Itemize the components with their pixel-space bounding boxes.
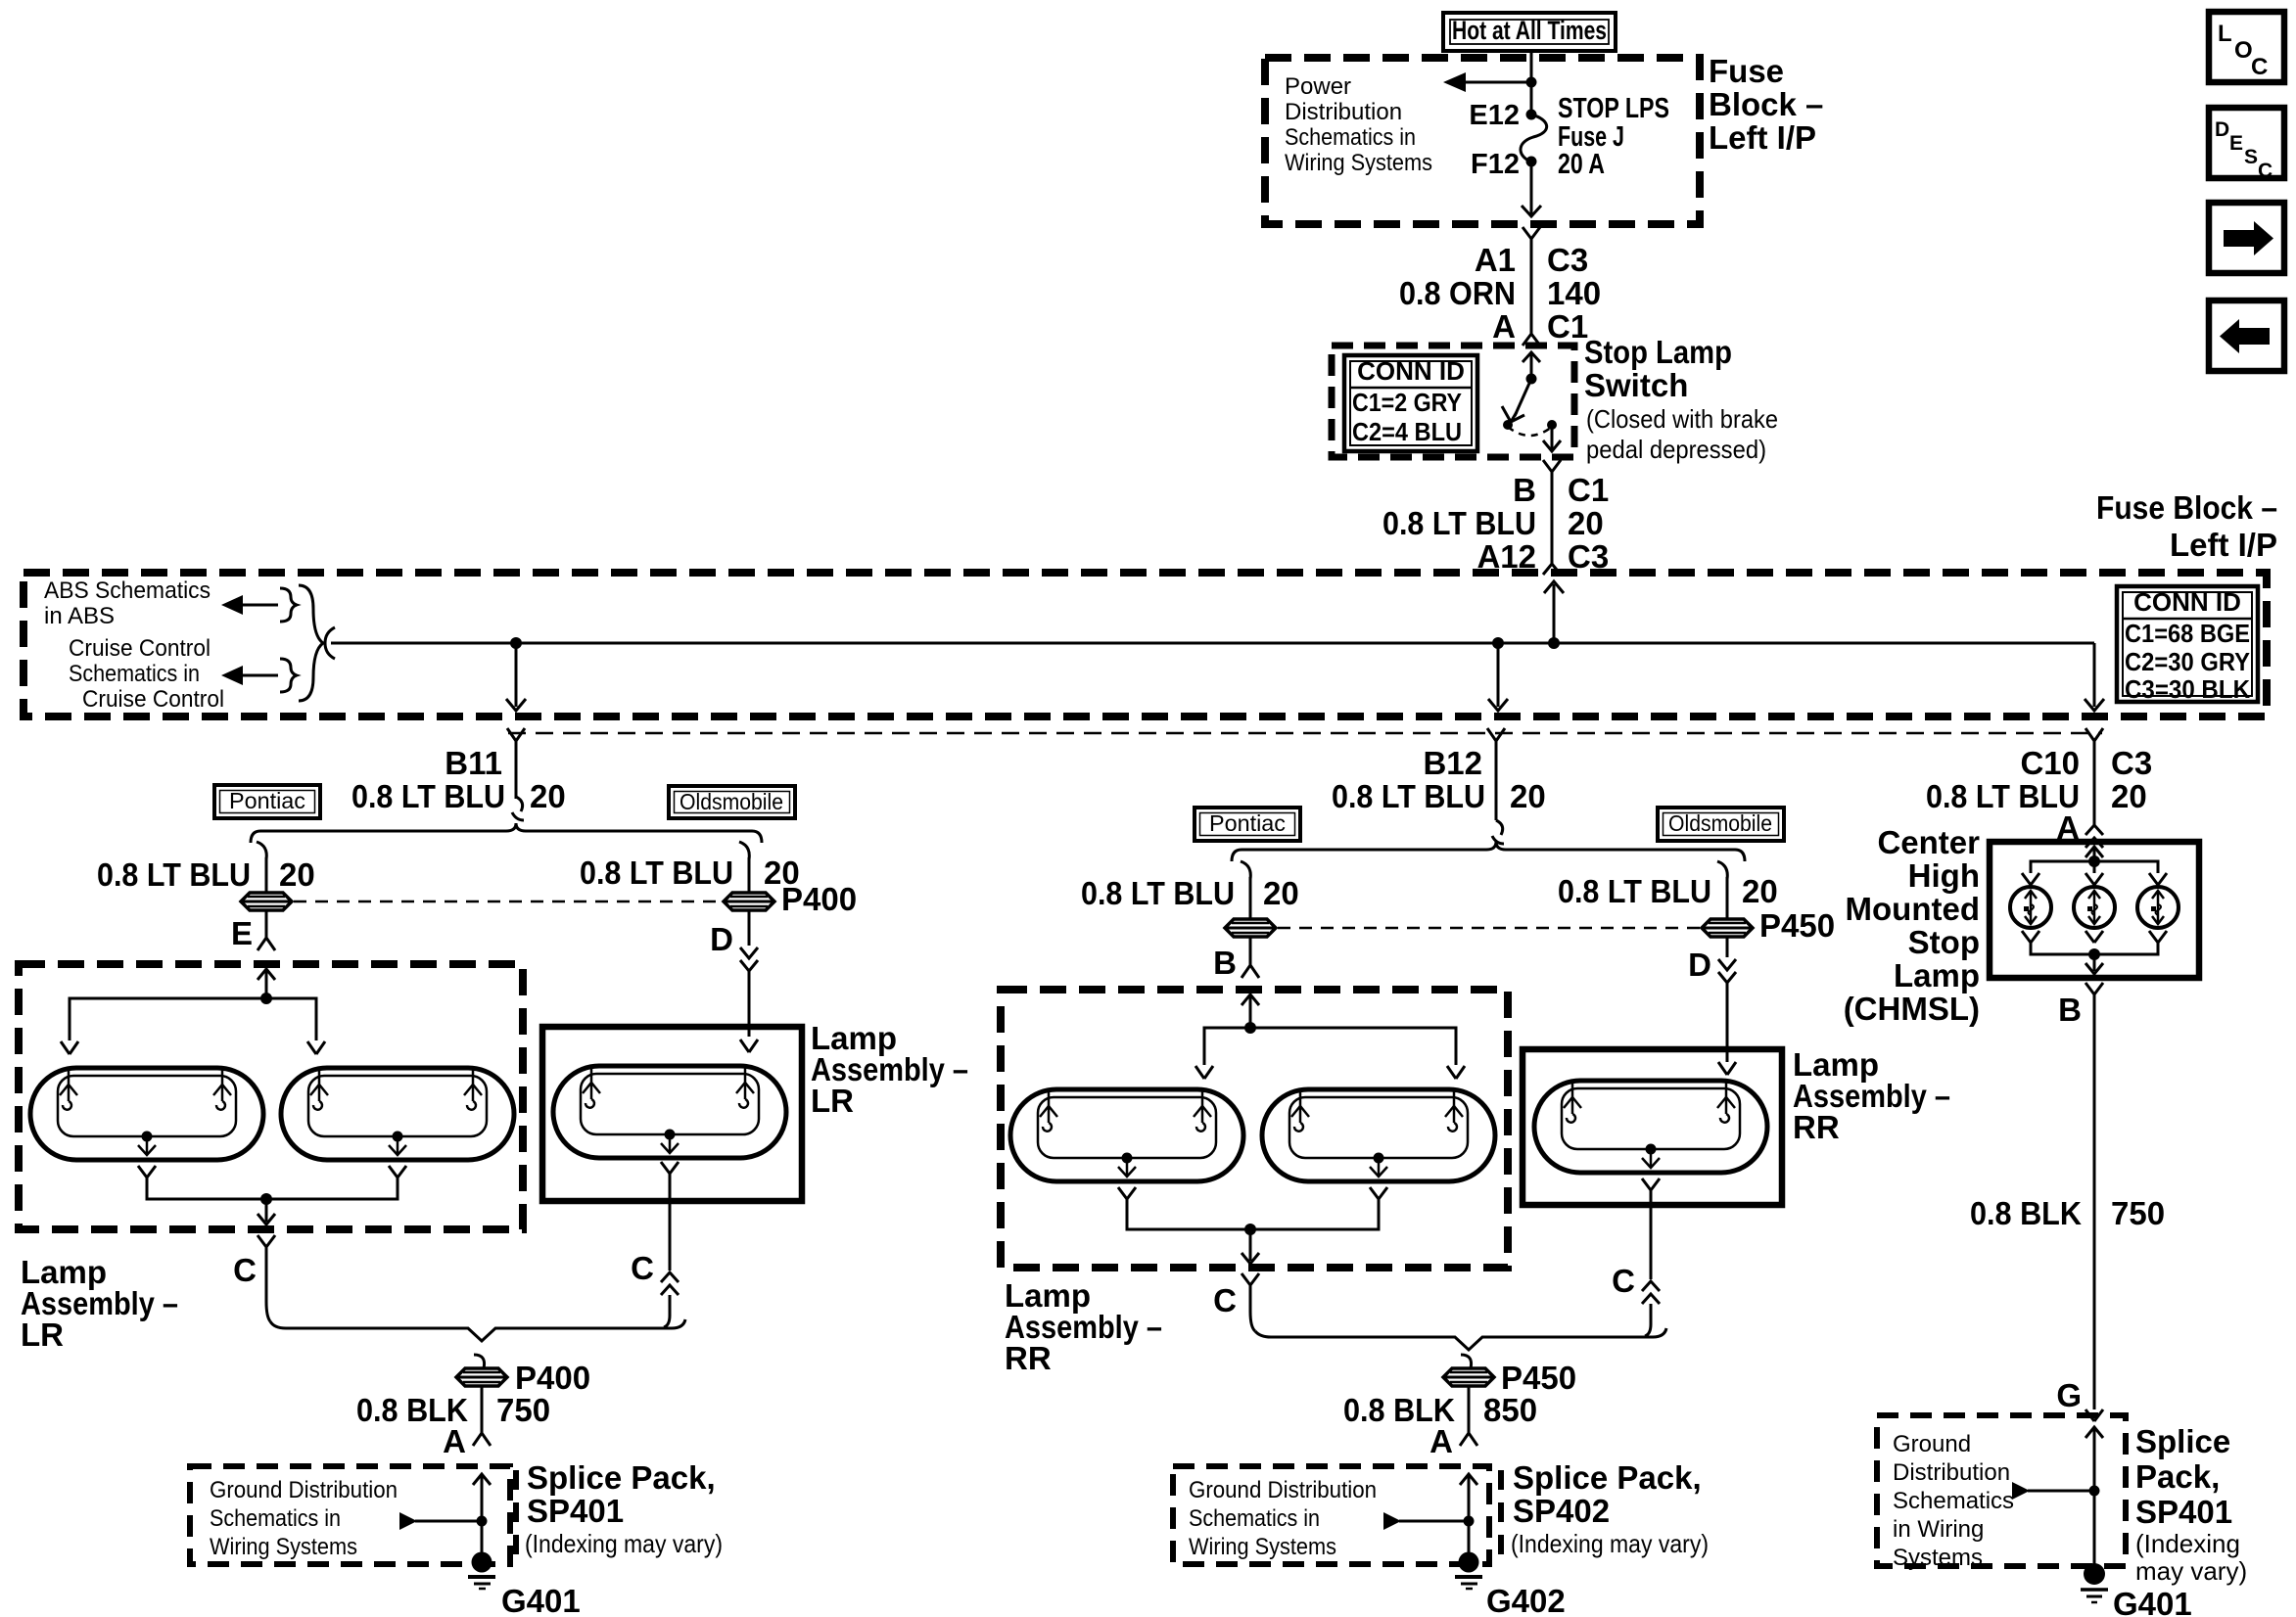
wire Oldsmobile RR branch bbox=[1726, 877, 1729, 918]
svg-text:ABS Schematics: ABS Schematics bbox=[44, 577, 211, 604]
fork to LR bulb 2 bbox=[307, 1041, 325, 1054]
svg-text:C2=30 GRY: C2=30 GRY bbox=[2125, 647, 2250, 676]
svg-text:RR: RR bbox=[1005, 1340, 1052, 1376]
svg-text:20: 20 bbox=[530, 778, 566, 814]
hook above P450 ground splice bbox=[1461, 1355, 1472, 1368]
splice P450 (ground) bbox=[1443, 1368, 1494, 1386]
feed line across LR assembly bbox=[70, 998, 316, 1040]
svg-text:in Wiring: in Wiring bbox=[1893, 1516, 1984, 1543]
svg-text:E12: E12 bbox=[1469, 100, 1520, 131]
fork to CHMSL bulb 1 bbox=[2022, 873, 2039, 885]
svg-text:20: 20 bbox=[1742, 873, 1778, 909]
svg-text:20 A: 20 A bbox=[1558, 149, 1605, 180]
connector A12/C3 fork bbox=[1543, 564, 1561, 575]
fuse block dashed box (Fuse Block - Left I/P) bbox=[1265, 58, 1700, 224]
bus corner to C10 with arrow bbox=[2085, 643, 2104, 711]
dashed in-line connector line P400 bbox=[294, 901, 722, 903]
connector A double chevron (CHMSL) bbox=[2085, 825, 2103, 848]
switch output wire with arrow bbox=[1543, 425, 1561, 451]
wire label 0.8 LT BLU | 20 bbox=[1382, 505, 1604, 541]
connector B12 fork bbox=[1487, 728, 1505, 741]
dashed travel arc bbox=[1508, 427, 1552, 436]
fork below CHMSL bulb 2 bbox=[2085, 931, 2103, 943]
wire label 0.8 BLK | 750 (CHMSL) bbox=[1970, 1195, 2165, 1231]
icon box left arrow bbox=[2209, 300, 2284, 371]
icon box LOC bbox=[2209, 12, 2284, 82]
wire C hook (Oldsmobile LR) bbox=[664, 1295, 670, 1327]
svg-text:SP401: SP401 bbox=[527, 1493, 624, 1529]
svg-text:B11: B11 bbox=[445, 745, 502, 781]
svg-text:Wiring Systems: Wiring Systems bbox=[1189, 1534, 1336, 1560]
wire B11 bbox=[515, 741, 518, 799]
fork below CHMSL bulb 3 bbox=[2149, 931, 2167, 943]
lamp assembly RR dashed box bbox=[1001, 990, 1508, 1268]
svg-text:C10: C10 bbox=[2020, 745, 2080, 781]
hook under B12 bbox=[1492, 820, 1504, 844]
pin labels A | C1 bbox=[1492, 308, 1588, 345]
bulb LR solid (dual filament) bbox=[553, 1066, 786, 1158]
label: Fuse Block - Left I/P (top) bbox=[1709, 53, 1823, 156]
svg-text:G401: G401 bbox=[501, 1583, 581, 1617]
connector B/C1 fork bbox=[1543, 460, 1561, 472]
junction A12 feed bbox=[1548, 637, 1560, 649]
wire label 0.8 BLK | 750 bbox=[356, 1392, 550, 1428]
wire below splice (Oldsmobile RR) bbox=[1726, 937, 1729, 957]
svg-text:SP401: SP401 bbox=[2135, 1494, 2232, 1530]
svg-text:Schematics in: Schematics in bbox=[1189, 1505, 1320, 1532]
reference text: Power Distribution Schematics in Wiring Systems bbox=[1285, 73, 1432, 176]
svg-text:Lamp: Lamp bbox=[1894, 957, 1980, 993]
splice P450 (Oldsmobile side) bbox=[1702, 919, 1753, 937]
svg-text:RR: RR bbox=[1793, 1109, 1840, 1145]
switch left contact bbox=[1503, 420, 1513, 430]
svg-text:0.8 LT BLU: 0.8 LT BLU bbox=[1332, 778, 1485, 814]
svg-text:P400: P400 bbox=[781, 881, 857, 917]
svg-text:SP402: SP402 bbox=[1513, 1493, 1610, 1529]
svg-text:(CHMSL): (CHMSL) bbox=[1844, 991, 1980, 1027]
svg-text:S: S bbox=[2244, 146, 2258, 168]
svg-text:20: 20 bbox=[1510, 778, 1546, 814]
join line to splice P400 with cusp bbox=[270, 1319, 685, 1341]
junction B12 tap bbox=[1492, 637, 1504, 649]
CHMSL bulb 2 bbox=[2074, 887, 2115, 928]
svg-text:Oldsmobile: Oldsmobile bbox=[1668, 810, 1772, 836]
fork to RR bulb 1 bbox=[1195, 1066, 1213, 1079]
svg-text:STOP LPS: STOP LPS bbox=[1558, 93, 1669, 124]
arrow to Cruise Control schematics bbox=[221, 666, 278, 685]
fork into RR solid lamp bbox=[1718, 1062, 1736, 1075]
junction CHMSL bottom bbox=[2088, 948, 2100, 960]
svg-text:C3: C3 bbox=[1547, 242, 1588, 278]
wire from fuse down with arrow bbox=[1522, 162, 1541, 216]
reference text: Cruise Control Schematics in Cruise Control bbox=[69, 635, 224, 713]
connector G fork bbox=[2085, 1409, 2103, 1421]
svg-text:(Indexing may vary): (Indexing may vary) bbox=[1511, 1529, 1709, 1558]
svg-text:C: C bbox=[631, 1250, 654, 1286]
connector B fork (CHMSL) bbox=[2085, 983, 2103, 994]
svg-text:Center: Center bbox=[1877, 824, 1980, 860]
big brace joining both bbox=[299, 585, 323, 701]
arrow out of LR assembly bbox=[258, 1199, 275, 1224]
svg-text:0.8 LT BLU: 0.8 LT BLU bbox=[97, 856, 251, 893]
label: Lamp Assembly - LR (dashed box) bbox=[21, 1254, 178, 1353]
lamp assembly RR solid box (Oldsmobile) bbox=[1523, 1049, 1782, 1205]
CHMSL bottom bus bbox=[2031, 943, 2158, 954]
fork below LR bulb 2 bbox=[389, 1166, 406, 1178]
label box: Hot at All Times bbox=[1443, 13, 1616, 51]
main bus wire inside fuse block bbox=[331, 642, 2094, 645]
svg-text:Pack,: Pack, bbox=[2135, 1458, 2220, 1495]
thin dashed connector plane line bbox=[508, 732, 2102, 735]
label: Lamp Assembly - RR (dashed box) bbox=[1005, 1277, 1162, 1376]
small hook before bus bbox=[325, 627, 335, 659]
junction B11 tap bbox=[510, 637, 522, 649]
fuse block dashed box (wide) bbox=[23, 573, 2267, 716]
label: Center High Mounted Stop Lamp (CHMSL) bbox=[1844, 824, 1980, 1027]
note: (Closed with brake pedal depressed) bbox=[1586, 404, 1778, 464]
fork below CHMSL bulb 1 bbox=[2022, 931, 2039, 943]
connector D double chevron bbox=[740, 947, 758, 971]
svg-text:Left I/P: Left I/P bbox=[2170, 527, 2277, 563]
svg-text:(Indexing may vary): (Indexing may vary) bbox=[525, 1529, 723, 1558]
svg-text:Systems: Systems bbox=[1893, 1545, 1983, 1571]
svg-text:C1=68 BGE: C1=68 BGE bbox=[2125, 619, 2250, 648]
svg-text:High: High bbox=[1908, 857, 1980, 894]
svg-text:Ground Distribution: Ground Distribution bbox=[210, 1477, 398, 1503]
wire C10 bbox=[2093, 741, 2096, 825]
connector C double chevron (Oldsmobile LR) bbox=[661, 1272, 679, 1295]
svg-text:LR: LR bbox=[21, 1317, 64, 1353]
svg-text:0.8 BLK: 0.8 BLK bbox=[1970, 1195, 2082, 1231]
arrow to power distribution bbox=[1443, 72, 1531, 92]
svg-text:A: A bbox=[1429, 1423, 1453, 1459]
arrow out of RR assembly bbox=[1242, 1229, 1259, 1264]
svg-text:140: 140 bbox=[1547, 275, 1601, 311]
splice pack dashed border (SP402) bbox=[1498, 1470, 1504, 1558]
label: Fuse Block - Left I/P (right) bbox=[2096, 489, 2277, 563]
svg-text:Power: Power bbox=[1285, 73, 1351, 100]
connector C10 fork bbox=[2085, 728, 2103, 741]
svg-text:Wiring Systems: Wiring Systems bbox=[1285, 150, 1432, 176]
svg-text:Distribution: Distribution bbox=[1285, 99, 1402, 125]
junction at fuse feed bbox=[1526, 77, 1537, 88]
wire D into LR solid lamp bbox=[748, 971, 751, 1037]
svg-text:P400: P400 bbox=[515, 1360, 590, 1396]
svg-text:C: C bbox=[2258, 160, 2273, 182]
svg-text:B: B bbox=[2058, 992, 2082, 1028]
label: Splice Pack SP401 bbox=[525, 1459, 723, 1558]
wire 0.8 BLK 750 bbox=[481, 1386, 484, 1433]
wire label 0.8 BLK | 850 bbox=[1343, 1392, 1537, 1428]
ground G402 bbox=[1455, 1552, 1482, 1590]
arrow up inside ground box (left) bbox=[473, 1474, 491, 1562]
wire out of LR solid box bbox=[669, 1174, 672, 1270]
bulb RR 2 (dual filament) bbox=[1262, 1089, 1495, 1181]
svg-text:LR: LR bbox=[811, 1083, 854, 1119]
svg-text:0.8 ORN: 0.8 ORN bbox=[1399, 275, 1516, 311]
arrow out of CHMSL bbox=[2085, 954, 2103, 974]
wire C hook (Oldsmobile RR) bbox=[1645, 1304, 1651, 1336]
svg-text:0.8 LT BLU: 0.8 LT BLU bbox=[580, 855, 733, 891]
svg-text:G401: G401 bbox=[2113, 1586, 2192, 1617]
bulb LR 1 (dual filament) bbox=[30, 1068, 263, 1160]
fork below LR bulb 1 bbox=[138, 1166, 156, 1178]
arrow into CHMSL top bus bbox=[2085, 847, 2103, 861]
svg-text:(Closed with brake: (Closed with brake bbox=[1586, 404, 1778, 434]
fork below RR bulb 1 bbox=[1118, 1187, 1136, 1199]
arrow into RR assembly bbox=[1242, 994, 1259, 1028]
ground distribution dashed box (left) bbox=[190, 1466, 510, 1564]
svg-text:Left I/P: Left I/P bbox=[1709, 119, 1816, 156]
svg-text:Distribution: Distribution bbox=[1893, 1459, 2010, 1486]
split brace to Pontiac and Oldsmobile (RR) bbox=[1232, 842, 1745, 861]
svg-text:C2=4 BLU: C2=4 BLU bbox=[1352, 417, 1462, 446]
svg-text:0.8 LT BLU: 0.8 LT BLU bbox=[1081, 875, 1235, 911]
svg-text:may vary): may vary) bbox=[2135, 1556, 2247, 1586]
wire 0.8 BLK 750 (CHMSL ground) bbox=[2093, 994, 2096, 1409]
junction on LR ground bus bbox=[260, 1193, 272, 1205]
connector B fork (Pontiac RR) bbox=[1242, 965, 1259, 978]
connector C fork (Pontiac LR) bbox=[258, 1235, 275, 1247]
svg-text:Schematics in: Schematics in bbox=[210, 1505, 341, 1532]
wire label 0.8 LT BLU | 20 (CHMSL) bbox=[1926, 778, 2147, 814]
CONN ID box (fuse block) bbox=[2117, 586, 2258, 704]
svg-text:D: D bbox=[2215, 118, 2229, 141]
fork below LR solid bulb bbox=[661, 1162, 679, 1174]
hook above P400 ground splice bbox=[474, 1355, 485, 1368]
stop lamp switch dashed box bbox=[1332, 346, 1574, 457]
wire below splice (Pontiac) bbox=[265, 910, 268, 938]
svg-text:Fuse Block –: Fuse Block – bbox=[2096, 489, 2277, 526]
svg-text:750: 750 bbox=[2111, 1195, 2165, 1231]
label box: Pontiac bbox=[214, 785, 320, 818]
label: Stop Lamp Switch bbox=[1584, 334, 1732, 403]
switch input arrow up bbox=[1523, 352, 1540, 379]
reference text: Ground Distribution Schematics in Wiring Systems (left) bbox=[210, 1477, 398, 1560]
junction CHMSL top bbox=[2088, 855, 2100, 867]
svg-text:C1: C1 bbox=[1568, 472, 1609, 508]
fork to LR bulb 1 bbox=[61, 1041, 78, 1054]
bulb LR 2 (dual filament) bbox=[281, 1068, 514, 1160]
fork into LR solid lamp bbox=[740, 1039, 758, 1052]
wire into CHMSL bbox=[2093, 838, 2096, 844]
splice P400 (ground) bbox=[456, 1368, 507, 1386]
connector B11 fork bbox=[507, 728, 525, 741]
pin labels A12 | C3 bbox=[1476, 538, 1609, 575]
svg-text:Mounted: Mounted bbox=[1846, 891, 1980, 927]
svg-text:Pontiac: Pontiac bbox=[229, 788, 305, 813]
svg-text:20: 20 bbox=[1568, 505, 1604, 541]
svg-text:20: 20 bbox=[1263, 875, 1299, 911]
fork to CHMSL bulb 3 bbox=[2149, 873, 2167, 885]
connector A/C1 fork bbox=[1523, 334, 1540, 346]
wire A1 to A (0.8 ORN 140) bbox=[1530, 239, 1533, 334]
label box: Pontiac (RR) bbox=[1195, 808, 1300, 841]
hook under B11 bbox=[512, 797, 524, 820]
svg-text:Hot at All Times: Hot at All Times bbox=[1452, 16, 1607, 45]
connector A fork (SP402) bbox=[1460, 1433, 1477, 1446]
svg-text:C: C bbox=[1612, 1263, 1635, 1299]
svg-text:0.8 LT BLU: 0.8 LT BLU bbox=[351, 778, 505, 814]
CHMSL solid box bbox=[1990, 842, 2199, 978]
svg-text:C1: C1 bbox=[1547, 308, 1588, 345]
CONN ID box (switch) bbox=[1344, 355, 1477, 451]
wire B12 tap down with arrow bbox=[1488, 643, 1508, 711]
wire out of RR solid box bbox=[1650, 1190, 1653, 1279]
lamp assembly LR dashed box bbox=[19, 964, 523, 1229]
small brace (Cruise) bbox=[280, 659, 297, 692]
wire Pontiac branch bbox=[265, 857, 268, 893]
svg-text:Cruise Control: Cruise Control bbox=[82, 686, 224, 713]
svg-text:B12: B12 bbox=[1423, 745, 1482, 781]
wire label 0.8 ORN | 140 bbox=[1399, 275, 1601, 311]
svg-text:C1=2 GRY: C1=2 GRY bbox=[1352, 388, 1462, 417]
connector D double chevron (RR) bbox=[1718, 959, 1736, 983]
svg-text:CONN ID: CONN ID bbox=[1357, 356, 1465, 386]
svg-text:Cruise Control: Cruise Control bbox=[69, 635, 211, 662]
wire B11 tap down with arrow bbox=[506, 643, 526, 711]
svg-text:B: B bbox=[1513, 472, 1536, 508]
wire C down to join (Pontiac LR) bbox=[266, 1247, 270, 1321]
svg-text:Schematics in: Schematics in bbox=[69, 661, 200, 687]
pin labels C10 | C3 bbox=[2020, 745, 2152, 781]
svg-text:Schematics: Schematics bbox=[1893, 1488, 2014, 1514]
svg-text:C3: C3 bbox=[2111, 745, 2152, 781]
svg-text:Oldsmobile: Oldsmobile bbox=[679, 789, 783, 814]
label: Lamp Assembly - RR (solid box) bbox=[1793, 1046, 1950, 1145]
value label: STOP LPS Fuse J 20 A bbox=[1558, 93, 1669, 180]
svg-text:C: C bbox=[2251, 54, 2268, 80]
svg-text:20: 20 bbox=[279, 856, 315, 893]
splice P450 (stop lamp feed) bbox=[1225, 919, 1276, 937]
wire below splice (Pontiac RR) bbox=[1249, 937, 1252, 965]
svg-text:Block –: Block – bbox=[1709, 86, 1823, 122]
ground bus inside RR assembly bbox=[1127, 1199, 1379, 1229]
svg-text:Ground Distribution: Ground Distribution bbox=[1189, 1477, 1377, 1503]
wire from Hot at All Times box to fuse block bbox=[1530, 49, 1533, 58]
switch right contact bbox=[1547, 420, 1557, 430]
reference text: Ground Distribution Schematics in Wiring Systems (right) bbox=[1893, 1431, 2014, 1571]
reference text: ABS Schematics in ABS bbox=[44, 577, 211, 629]
wire: feed from fuse bus bbox=[1530, 58, 1533, 115]
arrow to ABS schematics bbox=[221, 595, 278, 615]
svg-text:Splice Pack,: Splice Pack, bbox=[527, 1459, 716, 1496]
CHMSL bulb 3 bbox=[2137, 887, 2179, 928]
svg-text:pedal depressed): pedal depressed) bbox=[1586, 435, 1766, 464]
label box: Oldsmobile (RR) bbox=[1658, 808, 1784, 841]
connector A1/C3 fork bbox=[1523, 227, 1540, 239]
svg-text:Pontiac: Pontiac bbox=[1209, 810, 1286, 836]
svg-text:G402: G402 bbox=[1486, 1583, 1566, 1617]
dashed in-line connector line P450 bbox=[1278, 927, 1700, 930]
svg-text:G: G bbox=[2056, 1377, 2082, 1413]
junction on RR ground bus bbox=[1244, 1224, 1256, 1235]
split brace to Pontiac and Oldsmobile bbox=[251, 823, 762, 843]
wire label 0.8 LT BLU | 20 bbox=[351, 778, 566, 814]
svg-text:0.8 LT BLU: 0.8 LT BLU bbox=[1558, 873, 1711, 909]
svg-text:Splice: Splice bbox=[2135, 1423, 2230, 1459]
svg-text:850: 850 bbox=[1483, 1392, 1537, 1428]
ground distribution dashed box (right) bbox=[1877, 1415, 2126, 1566]
svg-text:Stop Lamp: Stop Lamp bbox=[1584, 334, 1732, 370]
wire label 0.8 LT BLU | 20 (Pontiac RR) bbox=[1081, 875, 1299, 911]
svg-text:20: 20 bbox=[2111, 778, 2147, 814]
svg-text:D: D bbox=[710, 921, 733, 957]
svg-text:B: B bbox=[1213, 945, 1237, 981]
svg-text:(Indexing: (Indexing bbox=[2135, 1529, 2240, 1558]
svg-text:C: C bbox=[1213, 1282, 1237, 1318]
wire D into RR solid lamp bbox=[1726, 983, 1729, 1062]
junction inside RR assembly bbox=[1244, 1022, 1256, 1034]
wire 0.8 BLK 850 bbox=[1468, 1386, 1471, 1433]
wire below splice (Oldsmobile) bbox=[748, 910, 751, 946]
connector E fork bbox=[258, 938, 275, 950]
pin labels B | C1 bbox=[1513, 472, 1609, 508]
svg-text:CONN ID: CONN ID bbox=[2133, 587, 2241, 617]
splice P400 (stop lamp feed) bbox=[241, 893, 292, 910]
svg-text:A: A bbox=[1492, 308, 1516, 345]
ground G401 (left) bbox=[468, 1552, 495, 1590]
wire label 0.8 LT BLU | 20 (Oldsmobile RR) bbox=[1558, 873, 1778, 909]
wire B to A12 (0.8 LT BLU 20) bbox=[1551, 472, 1554, 564]
icon box right arrow bbox=[2209, 203, 2284, 273]
wire label 0.8 LT BLU | 20 (B12) bbox=[1332, 778, 1546, 814]
wire B12 bbox=[1495, 741, 1498, 820]
switch blade with arrowhead bbox=[1502, 379, 1531, 422]
reference text: Ground Distribution Schematics in Wiring Systems (middle) bbox=[1189, 1477, 1377, 1560]
svg-text:Wiring Systems: Wiring Systems bbox=[210, 1534, 357, 1560]
Pontiac RR branch hook bbox=[1241, 861, 1250, 879]
arrow into LR assembly bbox=[258, 969, 275, 998]
CHMSL bulb 1 bbox=[2010, 887, 2051, 928]
fuse STOP LPS Fuse J 20 A bbox=[1521, 110, 1547, 167]
fork below RR solid bulb bbox=[1642, 1178, 1660, 1190]
wire label 0.8 LT BLU | 20 (Oldsmobile LR) bbox=[580, 855, 800, 891]
svg-text:E: E bbox=[2229, 132, 2243, 155]
arrow up inside ground box (middle) bbox=[1460, 1474, 1477, 1562]
label: Lamp Assembly - LR (solid box) bbox=[811, 1020, 968, 1119]
wire Pontiac RR branch bbox=[1249, 877, 1252, 918]
wire label 0.8 LT BLU | 20 (Pontiac LR) bbox=[97, 856, 315, 893]
pin labels A1 | C3 bbox=[1475, 242, 1588, 278]
bulb RR 1 (dual filament) bbox=[1010, 1089, 1243, 1181]
svg-text:in ABS: in ABS bbox=[44, 603, 115, 629]
svg-text:E: E bbox=[231, 915, 253, 951]
arrow into SP402 wire bbox=[1383, 1512, 1475, 1530]
fork to CHMSL bulb 2 bbox=[2085, 873, 2103, 885]
arrow into SP401 wire (right) bbox=[2012, 1482, 2100, 1500]
icon box DESC bbox=[2209, 108, 2284, 182]
svg-text:A: A bbox=[443, 1423, 466, 1459]
arrow into SP401 wire bbox=[399, 1512, 488, 1530]
svg-text:Schematics in: Schematics in bbox=[1285, 124, 1416, 151]
svg-text:D: D bbox=[1688, 947, 1711, 983]
connector C fork (Pontiac RR) bbox=[1242, 1273, 1259, 1285]
lamp assembly LR solid box (Oldsmobile) bbox=[542, 1027, 802, 1201]
svg-text:Stop: Stop bbox=[1908, 924, 1980, 960]
feed line across RR assembly bbox=[1204, 1028, 1456, 1065]
splice P400 (Oldsmobile side) bbox=[724, 893, 774, 910]
svg-text:A1: A1 bbox=[1475, 242, 1516, 278]
wire Oldsmobile branch bbox=[748, 857, 751, 893]
wire A12 feed up arrow bbox=[1544, 581, 1564, 643]
switch pivot contact bbox=[1526, 374, 1537, 385]
ground G401 (right) bbox=[2081, 1563, 2108, 1602]
wire to middle CHMSL bulb bbox=[2093, 861, 2096, 873]
wire C down to join (Pontiac RR) bbox=[1250, 1285, 1255, 1331]
CHMSL top bus bbox=[2031, 861, 2158, 873]
label: Splice Pack SP401 (right) bbox=[2135, 1423, 2247, 1586]
